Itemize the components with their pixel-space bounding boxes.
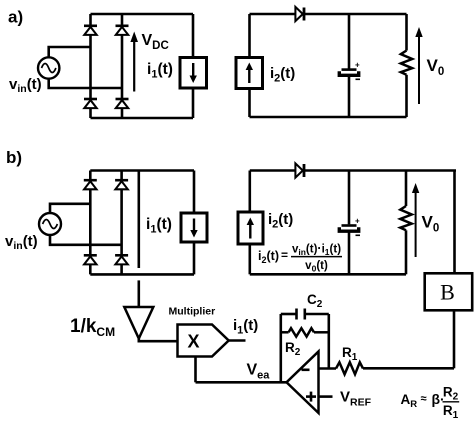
- svg-text:+: +: [355, 61, 360, 70]
- resistor R1: [336, 362, 363, 374]
- svg-text:i1(t): i1(t): [147, 61, 173, 81]
- wire: b) i2 branch bottom: [249, 244, 252, 274]
- label + input of op-amp: [306, 392, 316, 402]
- wire: b) ac source top lead: [50, 204, 90, 213]
- wire: a) i1 branch bottom: [192, 88, 195, 118]
- current source i1 a) box: [180, 58, 207, 89]
- wire: a) capacitor branch bottom: [348, 77, 351, 118]
- svg-text:a): a): [8, 8, 23, 27]
- svg-text:X: X: [187, 332, 199, 352]
- wire: a) right bottom rail: [250, 116, 407, 119]
- diode: b) bridge top-left: [84, 180, 97, 189]
- wire: b) i1 branch top: [193, 171, 196, 214]
- block B box: [425, 273, 473, 310]
- wire: inverting input wire: [319, 367, 337, 370]
- resistor R2: [281, 328, 329, 336]
- wire: b) bridge right branch: [120, 171, 123, 275]
- wire: multiplier output: [229, 339, 246, 342]
- capacitor a) output cap: [339, 70, 358, 76]
- diode: b) bridge bottom-right: [115, 255, 128, 264]
- svg-text:≈: ≈: [421, 393, 427, 405]
- label - input of op-amp: [302, 368, 310, 371]
- wire: a) bridge top rail: [91, 13, 194, 16]
- diode: a) bridge top-left: [84, 26, 97, 35]
- op-amp error amplifier: [287, 352, 319, 414]
- wire: a) ac source bottom lead: [49, 79, 122, 88]
- label - on a) cap: [356, 78, 361, 80]
- svg-text:i1(t): i1(t): [233, 317, 258, 337]
- svg-text:v0(t): v0(t): [305, 260, 328, 274]
- diode: b) output diode: [295, 163, 304, 177]
- wire: V_ea line from op-amp output to multiplier: [196, 381, 287, 384]
- wire: a) i2 branch top: [248, 14, 251, 58]
- wire: b) bridge bottom rail: [90, 273, 194, 276]
- wire: block B output down: [453, 310, 456, 368]
- arrow: V_0 a): [415, 27, 422, 104]
- diode: a) output diode: [295, 7, 304, 21]
- wire: b) capacitor branch bottom: [348, 232, 351, 274]
- wire: b) right rail down to block B: [453, 171, 456, 274]
- wire: a) ac source top lead: [49, 47, 91, 57]
- diode: b) bridge top-right: [115, 180, 128, 189]
- resistor: b) load: [400, 171, 411, 275]
- gain block 1/k_CM triangle: [124, 307, 153, 339]
- svg-text:i1(t): i1(t): [146, 216, 172, 236]
- wire: feedback right vertical: [327, 314, 330, 369]
- wire: a) bridge right branch: [121, 14, 124, 118]
- diode: b) bridge bottom-left: [84, 255, 97, 264]
- wire: a) capacitor branch top: [348, 14, 351, 69]
- wire: b) right bottom rail: [250, 273, 406, 276]
- capacitor b) output cap: [339, 226, 358, 232]
- svg-text:=: =: [281, 248, 288, 262]
- label equation i2(t) = vin(t)*i1(t)/v0(t): [258, 242, 342, 274]
- svg-text:i2(t): i2(t): [270, 65, 295, 85]
- current source i2 a) box: [236, 58, 263, 89]
- wire: b) i2 branch top: [249, 171, 252, 213]
- multiplier block: [178, 325, 229, 357]
- capacitor C2: [281, 309, 329, 320]
- wire: b) bridge top rail: [90, 169, 194, 172]
- arrow: V_0 b): [412, 183, 419, 257]
- wire: b) capacitor branch top: [348, 171, 351, 225]
- wire: sense wire from b) rail to 1/k block (upper): [138, 171, 141, 269]
- wire: non-inverting input to V_REF: [319, 395, 333, 398]
- wire: b) right top rail: [250, 169, 456, 172]
- svg-text:b): b): [6, 148, 22, 167]
- arrow: V_DC: [130, 32, 138, 92]
- svg-text:i2(t): i2(t): [268, 211, 293, 231]
- wire: a) bridge bottom rail: [91, 117, 194, 120]
- ac source b) v_in: [39, 213, 61, 235]
- wire: b) bridge left branch: [89, 171, 92, 275]
- ac source a) v_in: [38, 57, 59, 78]
- current source i2 b) box: [238, 212, 263, 244]
- wire: b) i1 branch bottom: [193, 242, 196, 274]
- wire: a) i1 branch top: [192, 14, 195, 58]
- diode: a) bridge bottom-left: [84, 99, 97, 108]
- wire: a) bridge left branch: [89, 14, 92, 118]
- svg-text:Multiplier: Multiplier: [169, 306, 216, 318]
- label equation A_R = beta R2/R1: [401, 384, 460, 421]
- wire: sense wire below rail crossing: [138, 280, 141, 307]
- wire: multiplier bottom input from V_ea: [194, 357, 197, 383]
- diode: a) bridge top-right: [116, 26, 129, 35]
- wire: block B output to R1: [363, 367, 454, 370]
- svg-text:i2(t): i2(t): [258, 249, 279, 265]
- diode: a) bridge bottom-right: [116, 99, 129, 108]
- wire: feedback left vertical: [279, 314, 282, 382]
- current source i1 b) box: [181, 213, 207, 242]
- resistor: a) load: [401, 14, 412, 117]
- svg-text:+: +: [355, 217, 360, 226]
- label - on b) cap: [356, 234, 361, 236]
- svg-text:B: B: [440, 280, 455, 305]
- wire: a) i2 branch bottom: [248, 89, 251, 118]
- wire: b) ac source bottom lead: [50, 235, 122, 245]
- wire: a) right top rail: [250, 13, 407, 16]
- wire: 1/k output to multiplier: [139, 337, 178, 341]
